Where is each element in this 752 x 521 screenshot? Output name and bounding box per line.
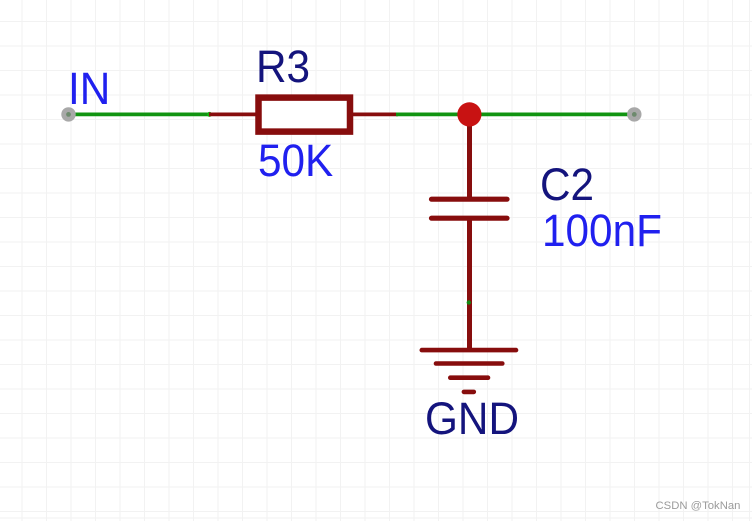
designator R3 <box>256 44 310 89</box>
power port label GND <box>425 396 519 441</box>
ground symbol bar 1 <box>422 348 516 353</box>
wire capacitor top lead <box>467 115 472 199</box>
watermark <box>656 500 741 512</box>
ground symbol bar 4 <box>464 390 474 395</box>
ground symbol bar 3 <box>450 375 488 380</box>
ground symbol bar 2 <box>436 361 502 366</box>
capacitor C2 top plate <box>432 197 508 202</box>
resistor R3 body <box>259 98 351 132</box>
junction node A <box>457 102 481 126</box>
value 50K <box>258 138 333 183</box>
port dot left (node IN terminal) <box>61 107 75 121</box>
wire vertex dot <box>467 300 471 304</box>
wire resistor right lead <box>353 113 398 117</box>
wire net OUT (green segment right) <box>396 113 634 117</box>
net label IN <box>68 66 110 111</box>
value 100nF <box>542 208 662 253</box>
designator C2 <box>540 162 594 207</box>
capacitor C2 bottom plate <box>432 216 508 221</box>
wire capacitor bottom lead <box>467 218 472 350</box>
wire resistor left lead <box>209 113 256 117</box>
wire net IN (green segment left) <box>69 112 213 117</box>
port dot right (node OUT terminal) <box>627 107 641 121</box>
